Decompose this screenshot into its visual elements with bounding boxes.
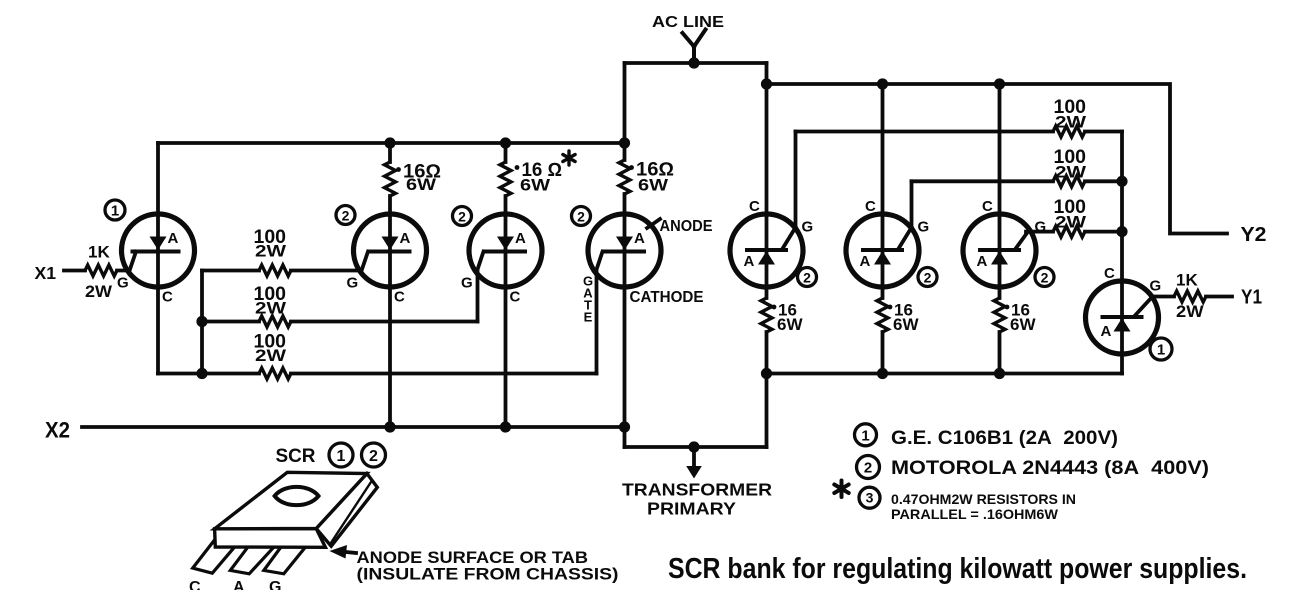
legend item 2 bbox=[857, 456, 1210, 480]
wire transformer arrow stem bbox=[692, 447, 696, 467]
junction bus-transformer right bbox=[761, 78, 772, 89]
svg-text:(INSULATE FROM CHASSIS): (INSULATE FROM CHASSIS) bbox=[357, 565, 619, 584]
resistor R.16 on SCR2 anode bbox=[385, 162, 396, 196]
wire left branch vertical upper (to anode bus) bbox=[623, 63, 627, 160]
wire SCR3 vertical lower bbox=[504, 196, 508, 427]
junction rowB-ladder bbox=[1116, 176, 1127, 187]
svg-text:6W: 6W bbox=[893, 315, 919, 334]
junction X2-transformer left bbox=[619, 421, 630, 432]
svg-text:C: C bbox=[510, 289, 521, 306]
label SCR package heading bbox=[276, 443, 386, 467]
wire left anode bus bbox=[158, 141, 625, 145]
svg-text:2W: 2W bbox=[1055, 163, 1087, 182]
junction bus-SCR6 bbox=[877, 78, 888, 89]
svg-text:G: G bbox=[918, 219, 930, 236]
SCR package leg G bbox=[264, 542, 308, 574]
svg-text:Y2: Y2 bbox=[1241, 224, 1267, 246]
svg-text:G: G bbox=[347, 275, 359, 292]
SCR7 (2N4443, up) bbox=[963, 214, 1036, 287]
label .16 6W SCR6 bbox=[888, 301, 920, 335]
junction rowC-ladder bbox=[1116, 226, 1127, 237]
junction ladder-row3 bbox=[196, 368, 207, 379]
junction bus-SCR7 bbox=[994, 78, 1005, 89]
svg-text:6W: 6W bbox=[520, 176, 551, 195]
svg-text:G: G bbox=[117, 275, 129, 292]
tag circled 2 for SCR3 bbox=[453, 207, 472, 226]
svg-text:2W: 2W bbox=[85, 282, 113, 301]
wire SCR3 vertical upper bbox=[504, 143, 508, 162]
junction ladder-row2 bbox=[196, 316, 207, 327]
wire gate rowB horizontal bbox=[912, 179, 1123, 183]
label 100 2W rowB bbox=[1054, 147, 1088, 182]
label 100 2W row3 bbox=[254, 332, 288, 366]
resistor R.16 on SCR7 anode bbox=[994, 298, 1005, 332]
label .16ohm 6W SCR3 with asterisk bbox=[515, 160, 562, 195]
asterisk mark by SCR3 resistor bbox=[563, 151, 575, 165]
svg-text:ANODE: ANODE bbox=[660, 218, 713, 235]
SCR package leg A bbox=[230, 542, 277, 574]
svg-text:2W: 2W bbox=[1055, 113, 1087, 132]
wire X2 bus bbox=[82, 425, 625, 429]
svg-text:G.E. C106B1 (2A 200V): G.E. C106B1 (2A 200V) bbox=[891, 428, 1118, 449]
wire Y1 lead bbox=[1152, 295, 1233, 299]
wire gate row1 horizontal bbox=[202, 269, 360, 273]
wire transformer right vertical (through SCR5) bbox=[765, 63, 769, 298]
wire SCR4 vertical through circle down to X2 and box bottom bbox=[623, 194, 627, 447]
svg-text:2W: 2W bbox=[255, 346, 287, 365]
junction bus-SCR4 bbox=[619, 137, 630, 148]
junction anodebus-SCR7 bbox=[994, 368, 1005, 379]
junction bus-SCR2 bbox=[384, 137, 395, 148]
svg-text:SCR bank for regulating kilowa: SCR bank for regulating kilowatt power s… bbox=[668, 553, 1247, 585]
wire gate rowC horizontal bbox=[1026, 230, 1122, 234]
svg-text:X1: X1 bbox=[35, 263, 57, 283]
label .16 6W SCR7 bbox=[1005, 301, 1037, 335]
wire gate rowA horizontal bbox=[796, 130, 1123, 134]
svg-text:1: 1 bbox=[111, 203, 119, 220]
legend asterisk bbox=[834, 481, 848, 498]
SCR package mounting hole bbox=[275, 487, 319, 505]
SCR8 (C106B1, up) bbox=[1086, 281, 1159, 354]
svg-text:A: A bbox=[977, 253, 988, 270]
junction anodebus-transformer bbox=[761, 368, 772, 379]
wire gate ladder vertical bbox=[200, 271, 204, 374]
svg-text:2W: 2W bbox=[255, 299, 287, 318]
svg-text:2: 2 bbox=[458, 209, 466, 225]
svg-text:2W: 2W bbox=[1055, 213, 1087, 232]
tag circled 2 for SCR4 bbox=[572, 207, 591, 226]
svg-text:A: A bbox=[860, 253, 871, 270]
wire SCR7 vertical bbox=[998, 84, 1002, 374]
svg-text:1: 1 bbox=[337, 448, 346, 465]
label GATE vertical bbox=[583, 274, 593, 325]
svg-text:A: A bbox=[233, 579, 245, 590]
SCR package body front face bbox=[215, 529, 326, 548]
svg-text:2: 2 bbox=[803, 270, 811, 286]
svg-text:G: G bbox=[802, 219, 814, 236]
wire SCR3 gate vertical bbox=[476, 272, 480, 322]
junction bus-SCR3 bbox=[500, 137, 511, 148]
label .16ohm 6W SCR2 bbox=[396, 162, 441, 195]
svg-text:TRANSFORMER: TRANSFORMER bbox=[622, 480, 772, 500]
junction X2-SCR3 bbox=[500, 421, 511, 432]
AC line antenna symbol bbox=[683, 30, 706, 65]
tag circled 1 for SCR8 bbox=[1150, 338, 1172, 360]
svg-text:CATHODE: CATHODE bbox=[630, 289, 704, 306]
tag circled 1 for SCR1 bbox=[105, 200, 125, 220]
wire SCR6 gate riser bbox=[910, 181, 914, 227]
svg-text:C: C bbox=[1104, 265, 1115, 282]
label 100 2W rowC bbox=[1054, 197, 1088, 232]
svg-text:6W: 6W bbox=[406, 175, 437, 194]
svg-text:G: G bbox=[461, 275, 473, 292]
wire right anode bus bbox=[767, 372, 1123, 376]
resistor 100 2W rowA bbox=[1053, 126, 1085, 137]
wire SCR1 anode/cathode vertical bbox=[156, 143, 160, 374]
junction transformer center tap bbox=[688, 441, 699, 452]
wire transformer box bottom bbox=[625, 445, 767, 449]
svg-text:2: 2 bbox=[1041, 270, 1049, 286]
junction AC line bbox=[688, 57, 699, 68]
svg-text:C: C bbox=[865, 198, 876, 215]
resistor R.16 on SCR3 anode bbox=[500, 162, 511, 196]
svg-text:2: 2 bbox=[342, 208, 350, 224]
svg-text:E: E bbox=[584, 310, 593, 325]
svg-text:C: C bbox=[394, 289, 405, 306]
svg-text:X2: X2 bbox=[45, 418, 70, 443]
svg-text:AC LINE: AC LINE bbox=[652, 14, 724, 31]
svg-text:1: 1 bbox=[861, 427, 869, 444]
svg-text:C: C bbox=[982, 198, 993, 215]
terminal Y2 bbox=[1241, 224, 1267, 246]
svg-text:0.47OHM2W RESISTORS IN: 0.47OHM2W RESISTORS IN bbox=[891, 491, 1076, 507]
resistor 100 2W row1 bbox=[259, 265, 291, 276]
resistor R.16 on SCR5 anode bbox=[761, 298, 772, 332]
svg-text:C: C bbox=[162, 289, 173, 306]
wire SCR2 vertical lower bbox=[388, 196, 392, 427]
wire right cathode bus bbox=[767, 84, 1228, 234]
node AC LINE label bbox=[652, 14, 724, 31]
svg-text:PARALLEL = .16OHM6W: PARALLEL = .16OHM6W bbox=[891, 506, 1059, 522]
SCR4 (2N4443) bbox=[588, 214, 661, 287]
junction X2-SCR2 bbox=[384, 421, 395, 432]
resistor 100 2W rowC bbox=[1053, 226, 1085, 237]
svg-text:2: 2 bbox=[577, 209, 585, 225]
wire X1 lead bbox=[64, 269, 129, 273]
terminal X1 bbox=[35, 263, 57, 283]
svg-text:A: A bbox=[168, 230, 179, 247]
wire gate row2 horizontal bbox=[202, 320, 478, 324]
SCR package body top face bbox=[215, 472, 367, 529]
label 100 2W row2 bbox=[254, 284, 288, 318]
anode tab pointer arrow bbox=[344, 552, 356, 553]
tag circled 2 for SCR2 bbox=[336, 206, 355, 225]
terminal Y1 bbox=[1241, 287, 1262, 309]
svg-text:G: G bbox=[1035, 219, 1047, 236]
transformer arrow head bbox=[686, 466, 702, 479]
svg-text:A: A bbox=[1101, 323, 1112, 340]
svg-text:Y1: Y1 bbox=[1241, 287, 1262, 309]
wire SCR5 anode to box bottom bbox=[765, 332, 769, 447]
legend item 3 bbox=[859, 487, 1076, 522]
svg-text:6W: 6W bbox=[777, 315, 803, 334]
svg-text:2: 2 bbox=[924, 270, 932, 286]
wire SCR5 gate riser bbox=[794, 132, 798, 228]
wire gate ladder vertical right bbox=[1120, 132, 1124, 374]
resistor 100 2W rowB bbox=[1053, 176, 1085, 187]
SCR package body right face bbox=[316, 474, 377, 547]
svg-text:A: A bbox=[634, 230, 645, 247]
svg-text:MOTOROLA 2N4443 (8A 400V): MOTOROLA 2N4443 (8A 400V) bbox=[891, 458, 1209, 479]
svg-text:2W: 2W bbox=[1176, 302, 1205, 321]
tag circled 2 for SCR7 bbox=[1035, 268, 1054, 287]
svg-text:C: C bbox=[189, 579, 201, 590]
label TRANSFORMER PRIMARY bbox=[622, 480, 772, 519]
resistor 1K 2W at X1 bbox=[85, 265, 117, 276]
svg-text:2: 2 bbox=[864, 460, 872, 477]
SCR package leg C bbox=[193, 540, 239, 573]
svg-text:G: G bbox=[269, 579, 281, 590]
svg-text:2W: 2W bbox=[255, 242, 287, 261]
svg-text:G: G bbox=[1150, 278, 1162, 295]
svg-text:3: 3 bbox=[866, 490, 874, 506]
SCR5 (2N4443, up) bbox=[730, 214, 803, 287]
wire SCR2 vertical upper bbox=[388, 143, 392, 162]
svg-text:6W: 6W bbox=[638, 176, 669, 195]
label 1K 2W bbox=[85, 243, 113, 302]
label .16 6W SCR5 bbox=[772, 301, 804, 335]
SCR2 (2N4443) bbox=[354, 214, 427, 287]
svg-text:A: A bbox=[744, 253, 755, 270]
label ANODE with pointer bbox=[647, 219, 660, 228]
tag circled 2 for SCR6 bbox=[918, 268, 937, 287]
label 100 2W row1 bbox=[254, 227, 288, 261]
SCR package bevel line bbox=[331, 481, 373, 544]
svg-text:1K: 1K bbox=[1176, 271, 1198, 290]
label .16ohm 6W SCR4 bbox=[629, 160, 674, 195]
label 1K 2W right bbox=[1176, 271, 1205, 322]
SCR3 (2N4443) bbox=[469, 214, 542, 287]
resistor 100 2W row2 bbox=[259, 316, 291, 327]
wire SCR4 gate vertical bbox=[595, 272, 599, 374]
SCR1 (C106B1) bbox=[122, 214, 195, 287]
label 100 2W rowA bbox=[1054, 97, 1088, 132]
wire SCR6 vertical bbox=[881, 84, 885, 374]
resistor R.16 on SCR4 anode bbox=[619, 160, 630, 194]
resistor 1K 2W at Y1 bbox=[1174, 291, 1206, 302]
wire transformer box top bbox=[625, 61, 767, 65]
svg-text:1K: 1K bbox=[88, 243, 110, 262]
svg-text:1: 1 bbox=[1157, 342, 1165, 359]
resistor 100 2W row3 bbox=[259, 368, 291, 379]
junction anodebus-SCR6 bbox=[877, 368, 888, 379]
SCR6 (2N4443, up) bbox=[846, 214, 919, 287]
svg-text:SCR: SCR bbox=[276, 446, 316, 467]
svg-text:2: 2 bbox=[369, 448, 378, 465]
svg-text:6W: 6W bbox=[1010, 315, 1036, 334]
svg-text:C: C bbox=[749, 198, 760, 215]
wire gate row3 horizontal bbox=[158, 372, 597, 376]
svg-text:A: A bbox=[400, 230, 411, 247]
tag circled 2 for SCR5 bbox=[798, 268, 817, 287]
svg-text:A: A bbox=[515, 230, 526, 247]
terminal X2 bbox=[45, 418, 70, 443]
legend item 1 bbox=[855, 424, 1119, 449]
svg-text:PRIMARY: PRIMARY bbox=[647, 499, 736, 519]
resistor R.16 on SCR6 anode bbox=[877, 298, 888, 332]
